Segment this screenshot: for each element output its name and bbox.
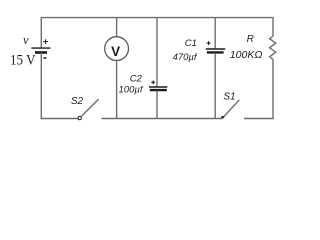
label C1 <box>185 38 197 49</box>
wire C1 branch lower <box>214 53 216 119</box>
svg-text:15 V: 15 V <box>10 53 36 69</box>
svg-text:470µf: 470µf <box>173 52 198 63</box>
svg-text:C1: C1 <box>185 38 197 49</box>
label 100µf <box>119 85 144 96</box>
wire bottom rail segment 3 <box>244 118 274 120</box>
svg-text:V: V <box>111 44 120 59</box>
svg-text:100KΩ: 100KΩ <box>230 49 263 61</box>
wire left branch upper <box>40 17 42 48</box>
battery V1 <box>31 39 50 58</box>
label 100KΩ <box>230 49 263 61</box>
wire bottom rail segment 1 <box>41 118 78 120</box>
capacitor C2 <box>149 80 167 90</box>
wire bottom rail segment 2 <box>102 118 223 120</box>
svg-text:S1: S1 <box>223 91 235 102</box>
switch S2 <box>78 99 99 120</box>
resistor R <box>270 36 276 60</box>
label S2 <box>71 96 84 107</box>
svg-text:100µf: 100µf <box>119 85 144 96</box>
label 15 V (battery value) <box>10 53 36 69</box>
wire C2 branch upper <box>156 18 158 87</box>
wire left branch lower <box>40 53 42 119</box>
wire C1 branch upper <box>214 18 216 49</box>
wire right branch lower <box>272 60 274 120</box>
wire voltmeter branch lower <box>116 61 118 119</box>
svg-text:v: v <box>23 33 29 47</box>
svg-text:S2: S2 <box>71 96 84 107</box>
svg-text:R: R <box>247 34 254 45</box>
wire C2 branch lower <box>156 91 158 119</box>
switch S1 <box>222 100 240 119</box>
wire top rail <box>41 17 273 19</box>
svg-text:C2: C2 <box>130 73 143 84</box>
voltmeter U1 <box>105 37 129 61</box>
label S1 <box>223 91 235 102</box>
label 470µf <box>173 52 198 63</box>
capacitor C1 <box>206 41 225 52</box>
label v (battery voltage symbol) <box>23 33 29 47</box>
label C2 <box>130 73 143 84</box>
wire right branch upper <box>272 17 274 36</box>
wire voltmeter branch upper <box>116 18 118 37</box>
label R <box>247 34 254 45</box>
